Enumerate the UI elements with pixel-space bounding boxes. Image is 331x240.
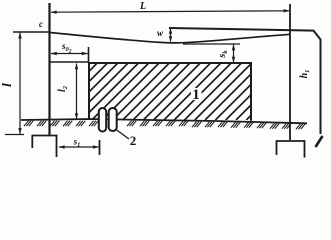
svg-text:l: l [0,83,14,87]
svg-text:c: c [39,19,43,29]
svg-text:w: w [157,28,164,38]
svg-text:L: L [139,1,146,12]
svg-text:2: 2 [130,133,137,148]
svg-text:1: 1 [192,87,200,103]
